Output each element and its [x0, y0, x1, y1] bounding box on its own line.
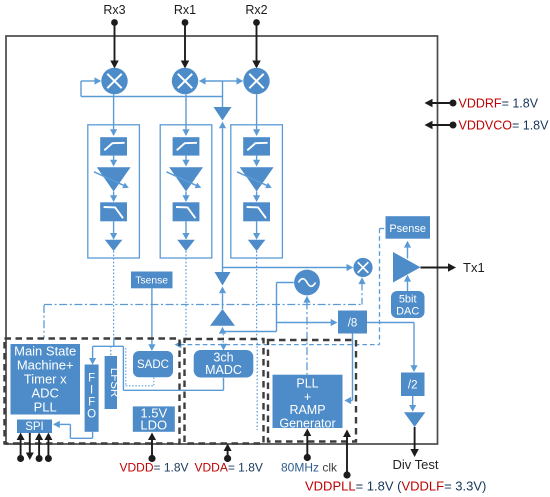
svg-text:Div Test: Div Test	[393, 457, 439, 472]
svg-text:MADC: MADC	[205, 363, 242, 377]
svg-text:+: +	[304, 390, 311, 404]
svg-text:VDDRF= 1.8V: VDDRF= 1.8V	[459, 97, 539, 111]
svg-text:Rx2: Rx2	[245, 3, 267, 17]
svg-text:/8: /8	[348, 318, 358, 330]
svg-text:F: F	[88, 373, 95, 385]
svg-text:VDDVCO= 1.8V: VDDVCO= 1.8V	[459, 119, 550, 133]
svg-text:Generator: Generator	[279, 416, 335, 430]
svg-text:LDO: LDO	[140, 418, 167, 433]
svg-text:Psense: Psense	[389, 223, 426, 235]
svg-text:ADC: ADC	[31, 386, 58, 401]
svg-text:LFSR: LFSR	[108, 368, 120, 397]
svg-text:SADC: SADC	[137, 359, 169, 371]
svg-text:RAMP: RAMP	[289, 403, 325, 417]
svg-text:Main State: Main State	[14, 344, 76, 359]
svg-text:VDDPLL= 1.8V (VDDLF= 3.3V): VDDPLL= 1.8V (VDDLF= 3.3V)	[305, 479, 486, 494]
svg-text:PLL: PLL	[34, 400, 57, 415]
svg-text:VDDA= 1.8V: VDDA= 1.8V	[195, 461, 263, 475]
svg-text:F: F	[88, 397, 95, 409]
svg-text:Timer x: Timer x	[24, 372, 67, 387]
svg-text:5bit: 5bit	[399, 294, 417, 306]
svg-text:PLL: PLL	[296, 377, 318, 391]
svg-text:VDDD= 1.8V: VDDD= 1.8V	[120, 461, 189, 475]
svg-text:I: I	[90, 385, 93, 397]
svg-text:Tsense: Tsense	[135, 275, 168, 286]
svg-text:Rx3: Rx3	[103, 3, 125, 17]
svg-text:Rx1: Rx1	[174, 3, 196, 17]
svg-text:O: O	[87, 409, 96, 421]
svg-text:Machine+: Machine+	[17, 358, 74, 373]
svg-text:SPI: SPI	[25, 421, 44, 433]
svg-text:/2: /2	[408, 380, 418, 392]
svg-text:Tx1: Tx1	[463, 260, 485, 275]
svg-text:80MHz clk: 80MHz clk	[281, 461, 338, 475]
svg-text:DAC: DAC	[396, 306, 419, 318]
